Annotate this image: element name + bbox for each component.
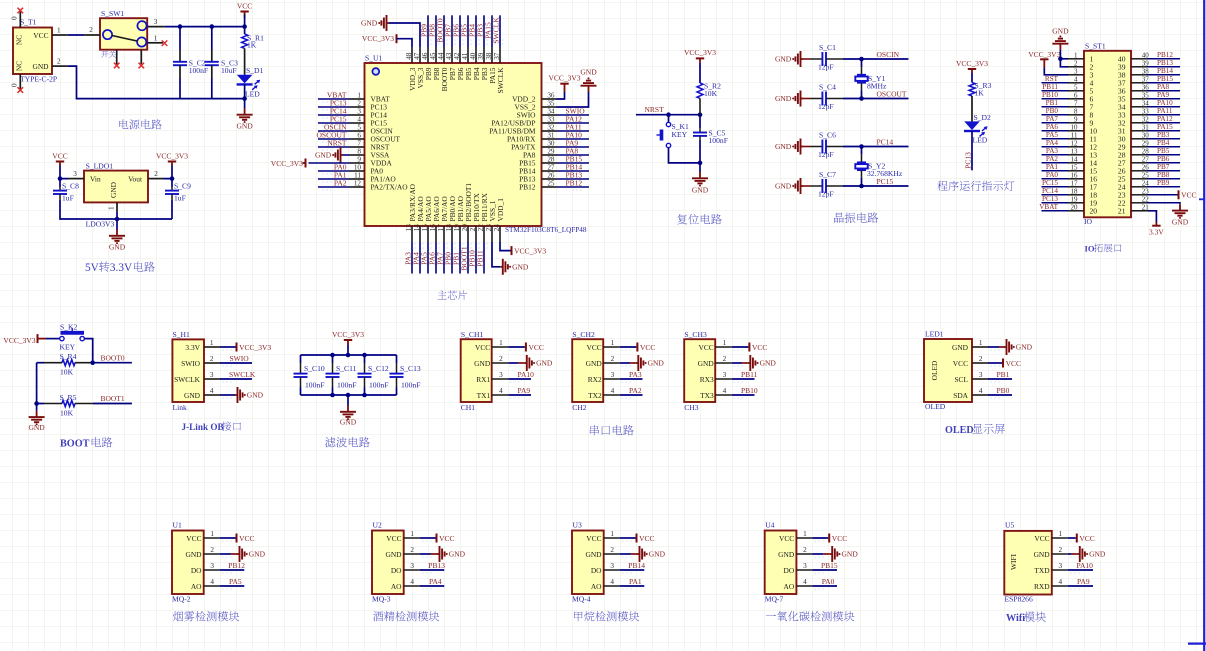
power VCC_3V3 filter xyxy=(344,339,352,341)
svg-text:4: 4 xyxy=(610,578,614,586)
U1 pin 13 PA3/RX/AO xyxy=(411,226,413,242)
U1 pin 17 PA7/AO xyxy=(443,226,445,242)
svg-text:MQ-7: MQ-7 xyxy=(765,595,784,604)
caption MQ-4 module xyxy=(574,612,583,622)
LED1 pin 2 VCC xyxy=(972,362,988,364)
svg-text:PA3: PA3 xyxy=(1046,147,1059,155)
svg-text:10: 10 xyxy=(1071,123,1079,131)
svg-text:Vout: Vout xyxy=(128,175,143,184)
wire net PB0 xyxy=(1042,114,1069,116)
svg-text:9: 9 xyxy=(357,155,361,163)
svg-text:10K: 10K xyxy=(704,89,718,98)
svg-text:PB12: PB12 xyxy=(228,561,245,570)
svg-text:ESP8266: ESP8266 xyxy=(1005,595,1033,604)
ST1 pin 26 xyxy=(1131,170,1147,172)
svg-text:12: 12 xyxy=(1071,139,1079,147)
svg-text:CH2: CH2 xyxy=(572,403,587,412)
power VCC xyxy=(240,11,248,13)
svg-text:RX2: RX2 xyxy=(588,375,602,384)
node junction xyxy=(362,353,367,358)
header CH3 serial xyxy=(684,339,715,402)
svg-text:1uF: 1uF xyxy=(174,194,186,203)
capacitor C3 10uF xyxy=(211,27,213,50)
wire net PA9 xyxy=(1068,585,1093,587)
svg-text:AO: AO xyxy=(591,582,602,591)
T1 pin 1 xyxy=(52,34,68,36)
wire net PA2 xyxy=(1042,162,1069,164)
wire net PB14 xyxy=(1147,74,1180,76)
svg-text:2: 2 xyxy=(210,546,214,554)
ST1 pin 11 xyxy=(1068,138,1084,140)
power VCC_3V3 ST1 pin 3 xyxy=(1040,58,1048,60)
resistor R5 10K xyxy=(37,403,44,405)
node junction C9 xyxy=(170,176,175,181)
ST1 pin 34 xyxy=(1131,106,1147,108)
module U1 MQ-2 xyxy=(172,531,204,595)
ST1 pin 36 xyxy=(1131,90,1147,92)
svg-text:13: 13 xyxy=(1071,147,1079,155)
wire net SWCLK xyxy=(499,15,501,47)
svg-text:VCC: VCC xyxy=(52,151,67,160)
wire net PB9 xyxy=(1147,186,1180,188)
ground VSS_1 xyxy=(492,242,500,267)
svg-text:GND: GND xyxy=(648,359,665,368)
svg-text:GND: GND xyxy=(28,423,45,432)
svg-text:VCC: VCC xyxy=(640,343,655,352)
svg-text:AO: AO xyxy=(784,582,795,591)
ST1 pin 7 xyxy=(1068,106,1084,108)
svg-text:100nF: 100nF xyxy=(709,136,728,145)
svg-text:38: 38 xyxy=(485,52,493,60)
wire net PB12 xyxy=(1147,58,1180,60)
U1 pin 29 PA8 xyxy=(542,154,557,156)
svg-text:VCC_3V3: VCC_3V3 xyxy=(956,59,988,68)
svg-text:SWIO: SWIO xyxy=(230,354,250,363)
svg-text:14: 14 xyxy=(1071,155,1079,163)
U1 pin 2 PC13 xyxy=(350,106,365,108)
SW1 bottom pins no-connect xyxy=(116,50,118,65)
svg-text:10uF: 10uF xyxy=(221,66,237,75)
svg-text:TX3: TX3 xyxy=(700,391,714,400)
svg-text:4: 4 xyxy=(611,387,615,395)
svg-text:PA10: PA10 xyxy=(518,370,535,379)
wire net PA8 xyxy=(1147,90,1180,92)
svg-text:VCC: VCC xyxy=(439,534,454,543)
H1 pin 4 GND xyxy=(204,394,220,396)
U1 pin 31 PA10/RX xyxy=(542,138,557,140)
wire K2 to BOOT0 xyxy=(84,339,92,363)
svg-text:GND: GND xyxy=(512,262,529,271)
wire net PB10 xyxy=(732,394,755,396)
svg-text:1K: 1K xyxy=(975,88,985,97)
U1 pin 27 PB14 xyxy=(542,170,557,172)
wire net SWIO xyxy=(220,362,252,364)
svg-text:S_C12: S_C12 xyxy=(368,364,389,373)
svg-text:2: 2 xyxy=(357,99,361,107)
svg-text:GND: GND xyxy=(1016,343,1033,352)
capacitor C9 1uF xyxy=(171,179,173,187)
ground U5 xyxy=(1068,553,1071,555)
svg-text:VCC_3V3: VCC_3V3 xyxy=(362,34,394,43)
svg-text:24: 24 xyxy=(493,224,501,232)
wire net PB5 xyxy=(467,15,469,47)
wire net PA4 xyxy=(420,585,445,587)
svg-text:PA0: PA0 xyxy=(822,577,835,586)
svg-text:SWCLK: SWCLK xyxy=(174,375,201,384)
svg-text:1: 1 xyxy=(357,91,361,99)
svg-text:PC15: PC15 xyxy=(877,177,894,186)
header ST1 IO expander xyxy=(1084,51,1131,218)
svg-text:PA2: PA2 xyxy=(1046,155,1059,163)
svg-text:J-Link OB: J-Link OB xyxy=(182,422,224,432)
wire net PA15 xyxy=(1147,130,1180,132)
wire net PA7 xyxy=(443,242,445,274)
LED1 pin 3 SCL xyxy=(972,378,988,380)
svg-text:BOOT0: BOOT0 xyxy=(101,353,125,362)
svg-text:PB13: PB13 xyxy=(428,561,445,570)
wire net PB3 xyxy=(483,15,485,47)
power VCC_3V3 H1 xyxy=(220,346,236,348)
U4 pin 4 AO xyxy=(796,585,812,587)
svg-text:0: 0 xyxy=(11,16,19,20)
svg-text:6: 6 xyxy=(1074,91,1078,99)
capacitor C6 12pF xyxy=(801,146,804,148)
ground reset xyxy=(699,163,701,172)
svg-text:GND: GND xyxy=(32,62,49,71)
CH1 pin 4 TX1 xyxy=(492,394,509,396)
ST1 pin 20 xyxy=(1068,210,1084,212)
U3 pin 2 GND xyxy=(604,553,620,555)
svg-text:GND: GND xyxy=(315,151,332,160)
power VCC CH1 xyxy=(508,346,525,348)
svg-text:PA2/TX/AO: PA2/TX/AO xyxy=(371,183,409,192)
svg-text:3.3V: 3.3V xyxy=(1149,228,1164,237)
svg-text:GND: GND xyxy=(236,122,253,131)
wire net PB11 xyxy=(483,242,485,274)
svg-text:3: 3 xyxy=(610,562,614,570)
svg-text:PB3: PB3 xyxy=(1157,131,1170,139)
svg-text:PB0: PB0 xyxy=(1046,107,1059,115)
svg-text:0: 0 xyxy=(11,83,19,87)
svg-text:AO: AO xyxy=(191,582,202,591)
svg-text:1K: 1K xyxy=(247,41,257,50)
svg-text:VCC_3V3: VCC_3V3 xyxy=(684,48,716,57)
SW1 pin 1 no-connect xyxy=(147,42,163,44)
diode D2 LED xyxy=(971,96,973,121)
ST1 pin 19 xyxy=(1068,202,1084,204)
svg-text:12pF: 12pF xyxy=(818,102,834,111)
svg-text:PB15: PB15 xyxy=(1157,75,1173,83)
svg-text:VCC: VCC xyxy=(953,359,968,368)
ground LDO xyxy=(116,230,118,236)
U3 pin 1 VCC xyxy=(604,537,620,539)
module U3 MQ-4 xyxy=(572,531,604,595)
U1 pin 22 PB11/RX xyxy=(483,226,485,242)
svg-text:12pF: 12pF xyxy=(818,190,834,199)
wire net PA6 xyxy=(435,242,437,274)
svg-text:TX2: TX2 xyxy=(588,391,602,400)
svg-text:S_U1: S_U1 xyxy=(365,54,383,63)
wire net PB8 xyxy=(1147,178,1180,180)
svg-text:2: 2 xyxy=(1074,59,1078,67)
U1 pin 3 PC14 xyxy=(350,114,365,116)
ground boot xyxy=(36,411,38,417)
U1 pin 5 OSCIN xyxy=(350,130,365,132)
ST1 pin 14 xyxy=(1068,162,1084,164)
svg-text:U4: U4 xyxy=(765,521,774,530)
wire net PA12 xyxy=(1147,122,1180,124)
wire net PA5 xyxy=(1042,138,1069,140)
svg-text:VCC: VCC xyxy=(1181,191,1196,200)
svg-text:1: 1 xyxy=(979,339,983,347)
node junction xyxy=(346,353,351,358)
svg-text:8: 8 xyxy=(1074,107,1078,115)
wire net PA8 xyxy=(557,154,590,156)
svg-text:TX1: TX1 xyxy=(477,391,491,400)
capacitor C2 100nF xyxy=(179,27,181,50)
ST1 pin 37 xyxy=(1131,82,1147,84)
SW1 pin 3 xyxy=(147,26,165,28)
capacitor C12 100nF xyxy=(364,355,366,363)
svg-text:VBAT: VBAT xyxy=(1039,203,1058,211)
ST1 pin 38 xyxy=(1131,74,1147,76)
wire net PA10 xyxy=(1068,569,1093,571)
svg-text:RST: RST xyxy=(1045,75,1059,83)
svg-text:5: 5 xyxy=(1074,83,1078,91)
wire net PA9 xyxy=(1147,98,1180,100)
U1 pin 8 VSSA xyxy=(350,154,365,156)
CH1 pin 1 VCC xyxy=(492,346,509,348)
node junction C5 bottom xyxy=(698,161,703,166)
wire net PB11 xyxy=(732,378,755,380)
CH2 pin 4 TX2 xyxy=(603,394,620,396)
wire SW1 pin3 to VCC node xyxy=(165,26,245,28)
wire net OSCIN xyxy=(843,58,909,60)
wire net PB14 xyxy=(620,569,645,571)
caption MQ-2 module xyxy=(173,611,183,621)
wire net PB0 xyxy=(988,394,1012,396)
svg-text:3: 3 xyxy=(357,107,361,115)
node junction K1 branch xyxy=(666,112,671,117)
U1 pin 25 PB12 xyxy=(542,186,557,188)
svg-text:S_H1: S_H1 xyxy=(173,330,191,339)
svg-text:GND: GND xyxy=(775,94,792,103)
svg-text:37: 37 xyxy=(493,52,501,60)
svg-text:12pF: 12pF xyxy=(818,150,834,159)
U4 pin 2 GND xyxy=(796,553,812,555)
wire net VBAT xyxy=(318,98,350,100)
svg-text:19: 19 xyxy=(453,224,461,232)
svg-text:MQ-4: MQ-4 xyxy=(572,595,591,604)
U1 pin 37 SWCLK xyxy=(499,47,501,63)
U1 pin 4 PC15 xyxy=(350,122,365,124)
svg-text:S_K2: S_K2 xyxy=(60,323,78,332)
wire net PB13 xyxy=(1147,66,1180,68)
svg-text:GND: GND xyxy=(109,243,126,252)
svg-text:26: 26 xyxy=(547,171,555,179)
wire net PC14 xyxy=(843,146,909,148)
svg-text:22: 22 xyxy=(477,224,485,232)
U5 pin 1 VCC xyxy=(1052,537,1068,539)
svg-text:S_D1: S_D1 xyxy=(246,66,264,75)
wire net PB15 xyxy=(1147,82,1180,84)
wire net PB1 xyxy=(1042,106,1069,108)
CH3 pin 3 RX3 xyxy=(715,378,732,380)
svg-text:VCC: VCC xyxy=(239,534,254,543)
svg-text:S_C9: S_C9 xyxy=(174,181,191,190)
svg-text:45: 45 xyxy=(429,52,437,60)
U5 pin 4 RXD xyxy=(1052,585,1068,587)
svg-text:VCC_3V3: VCC_3V3 xyxy=(332,330,364,339)
U1 pin 28 PB15 xyxy=(542,162,557,164)
svg-text:4: 4 xyxy=(723,387,727,395)
U1 pin 15 PA5/AO xyxy=(427,226,429,242)
wire net SWCLK xyxy=(220,378,252,380)
svg-text:14: 14 xyxy=(413,224,421,232)
svg-text:18: 18 xyxy=(445,224,453,232)
wire net BOOT1 xyxy=(93,403,132,405)
svg-text:GND: GND xyxy=(952,343,969,352)
svg-text:S_T1: S_T1 xyxy=(20,17,37,26)
svg-text:1: 1 xyxy=(210,339,214,347)
svg-text:U1: U1 xyxy=(173,521,182,530)
svg-text:PB1: PB1 xyxy=(997,370,1010,379)
node junction xyxy=(330,353,335,358)
ST1 pin 13 xyxy=(1068,154,1084,156)
svg-text:GND: GND xyxy=(185,550,202,559)
wire VCC to Vin xyxy=(60,166,68,179)
U1 pin 38 PA15 xyxy=(491,47,493,63)
ground LED1 xyxy=(988,346,999,348)
svg-text:41: 41 xyxy=(461,52,469,60)
svg-text:2: 2 xyxy=(1059,546,1063,554)
svg-text:17: 17 xyxy=(1071,179,1079,187)
power 3.3V ST1 pin 21 xyxy=(1131,210,1148,212)
svg-text:20: 20 xyxy=(1090,206,1098,215)
U4 pin 3 DO xyxy=(796,569,812,571)
svg-text:GND: GND xyxy=(698,359,715,368)
svg-text:U3: U3 xyxy=(573,521,582,530)
svg-text:GND: GND xyxy=(692,185,709,194)
svg-text:LED: LED xyxy=(973,136,988,145)
ST1 pin 3 xyxy=(1068,74,1084,76)
svg-text:PB6: PB6 xyxy=(1157,155,1170,163)
svg-text:GND: GND xyxy=(586,359,603,368)
ST1 pin 2 xyxy=(1068,66,1084,68)
key K2 xyxy=(46,338,60,340)
wire net PB15 xyxy=(557,162,590,164)
U1 pin 6 OSCOUT xyxy=(350,138,365,140)
svg-text:S_C11: S_C11 xyxy=(336,364,357,373)
svg-text:10K: 10K xyxy=(60,408,74,417)
caption reset circuit xyxy=(677,214,687,224)
svg-text:MQ-2: MQ-2 xyxy=(172,595,191,604)
svg-text:SCL: SCL xyxy=(954,375,968,384)
wire net SWIO xyxy=(557,114,590,116)
svg-text:PB5: PB5 xyxy=(1157,147,1170,155)
svg-text:13: 13 xyxy=(405,224,413,232)
svg-text:VCC: VCC xyxy=(1034,534,1049,543)
svg-text:PB14: PB14 xyxy=(628,561,645,570)
ST1 pin 25 xyxy=(1131,178,1147,180)
svg-text:S_ST1: S_ST1 xyxy=(1085,41,1106,50)
node junction D1/rail xyxy=(242,96,247,101)
SW1 pin 2 xyxy=(84,34,100,36)
svg-text:16: 16 xyxy=(1071,171,1079,179)
svg-text:BOOT1: BOOT1 xyxy=(101,394,125,403)
wire net VBAT xyxy=(1042,210,1069,212)
U1 pin 44 BOOT0 xyxy=(443,47,445,63)
wire filter bottom rail xyxy=(301,394,397,396)
wire net PA0 xyxy=(812,585,837,587)
svg-text:100nF: 100nF xyxy=(189,66,208,75)
svg-text:PB11: PB11 xyxy=(1042,83,1058,91)
svg-text:SWIO: SWIO xyxy=(181,359,201,368)
wire net PA4 xyxy=(1042,146,1069,148)
ground VSS_3 xyxy=(387,22,390,24)
svg-text:PA9: PA9 xyxy=(518,386,531,395)
svg-text:PB10: PB10 xyxy=(1042,91,1058,99)
svg-text:32.768KHz: 32.768KHz xyxy=(867,169,903,178)
svg-text:GND: GND xyxy=(536,359,553,368)
svg-text:RX3: RX3 xyxy=(700,375,714,384)
wire filter top rail xyxy=(301,354,397,356)
key K1 xyxy=(668,115,670,123)
wire net RST xyxy=(1042,82,1069,84)
ST1 pin 8 xyxy=(1068,114,1084,116)
svg-text:PB12: PB12 xyxy=(1157,51,1173,59)
power VCC_3V3 indicator xyxy=(968,68,976,70)
svg-text:PB10: PB10 xyxy=(741,386,758,395)
wire net PA9 xyxy=(557,146,590,148)
ST1 pin 5 xyxy=(1068,90,1084,92)
wire net PB4 xyxy=(1147,146,1180,148)
svg-text:PB11: PB11 xyxy=(741,370,758,379)
ST1 pin 21 xyxy=(1131,210,1147,212)
U1 pin 48 VDD_3 xyxy=(411,47,413,63)
resistor R1 1K xyxy=(244,27,246,34)
svg-text:S_C7: S_C7 xyxy=(819,170,836,179)
LED1 pin 4 SDA xyxy=(972,394,988,396)
capacitor C5 100nF xyxy=(699,115,701,128)
U1 pin 16 PA6/AO xyxy=(435,226,437,242)
svg-text:PA4: PA4 xyxy=(429,577,442,586)
svg-text:1: 1 xyxy=(499,339,503,347)
header CH1 serial xyxy=(461,339,492,402)
capacitor C10 100nF xyxy=(300,355,302,363)
wire net PC13 xyxy=(1042,202,1069,204)
diode D1 LED xyxy=(244,48,246,74)
svg-text:S_D2: S_D2 xyxy=(974,113,992,122)
svg-text:1: 1 xyxy=(1059,530,1063,538)
capacitor C13 100nF xyxy=(396,355,398,363)
svg-text:PC14: PC14 xyxy=(1042,187,1058,195)
ST1 pin 33 xyxy=(1131,114,1147,116)
svg-text:42: 42 xyxy=(453,52,461,60)
svg-text:S_C6: S_C6 xyxy=(819,131,836,140)
svg-text:21: 21 xyxy=(1118,206,1126,215)
svg-text:VCC_3V3: VCC_3V3 xyxy=(156,151,188,160)
svg-text:STM32F103C8T6_LQFP48: STM32F103C8T6_LQFP48 xyxy=(505,226,587,234)
svg-text:IO: IO xyxy=(1084,217,1093,226)
ground U4 xyxy=(812,553,823,555)
svg-text:S_C1: S_C1 xyxy=(819,43,836,52)
svg-text:VCC: VCC xyxy=(832,534,847,543)
U1 pin 9 VDDA xyxy=(350,162,365,164)
U1 pin 10 PA0 xyxy=(350,170,365,172)
ST1 pin 40 xyxy=(1131,58,1147,60)
svg-text:PA11: PA11 xyxy=(1157,107,1173,115)
